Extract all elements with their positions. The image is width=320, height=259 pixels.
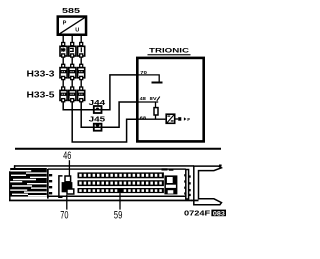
pin holes <box>79 174 162 192</box>
svg-text:J45: J45 <box>89 114 107 123</box>
pin 68 wire <box>139 118 166 120</box>
left end closure <box>10 165 15 200</box>
wire H33-5 pin1 to J44 to Trionic pin 70 <box>63 75 137 110</box>
end plate <box>186 170 189 200</box>
connector body outline top inner <box>48 168 186 169</box>
connector H33-3 row <box>60 64 85 79</box>
resistor (pull-up) <box>154 102 158 119</box>
nubs on top line <box>162 168 168 170</box>
connector body outline top outer <box>14 165 194 167</box>
highlighted pin 46 <box>65 176 71 182</box>
splice J44 <box>94 106 102 113</box>
wire crossing fork channel (body bottom line) <box>191 200 199 202</box>
svg-text:0724F: 0724F <box>184 211 210 218</box>
fork top beak flare <box>219 165 222 167</box>
svg-text:P: P <box>63 20 67 26</box>
pointer line 46 <box>68 160 70 176</box>
cable bundle hatching <box>10 168 47 197</box>
pointer line 59 <box>119 193 121 210</box>
svg-text:U: U <box>75 28 79 34</box>
pin bar row 3 <box>78 188 164 193</box>
svg-text:TRIONIC: TRIONIC <box>149 48 190 55</box>
divider teeth <box>49 174 52 194</box>
terminal row 1 (sensor connector pins) <box>60 43 85 58</box>
svg-text:70: 70 <box>60 210 68 222</box>
svg-text:48: 48 <box>140 96 147 102</box>
wire stubs sensor to terminal row 1 <box>63 36 81 44</box>
splice J45 <box>94 124 102 131</box>
pressure sensor 585 box (P/U transducer) <box>58 17 86 35</box>
wire 46 bus line <box>15 148 221 150</box>
pin bar row 2 <box>78 180 164 186</box>
wire stubs H33-3 to H33-5 <box>63 79 81 88</box>
svg-text:H33-5: H33-5 <box>27 90 56 99</box>
svg-text:59: 59 <box>114 210 123 222</box>
right end pin cluster <box>164 175 177 194</box>
pin below highlight <box>67 189 74 194</box>
pin bar row 1 <box>78 172 164 178</box>
pointer line 70 <box>66 195 68 210</box>
fork (harness clip) <box>194 166 222 205</box>
svg-text:H33-3: H33-3 <box>27 69 56 78</box>
svg-text:585: 585 <box>62 6 80 15</box>
highlighted pin 70 block <box>62 182 73 192</box>
wire H33-5 pin3 to J45 to Trionic pin 48 <box>81 101 137 127</box>
svg-text:68: 68 <box>140 115 147 121</box>
bracket left of pin field <box>59 176 63 197</box>
wire stubs row1 to H33-3 <box>63 57 81 66</box>
pin 70 wire and internal ground <box>139 75 160 82</box>
svg-text:083: 083 <box>213 210 226 217</box>
divider wall <box>47 169 49 199</box>
svg-text:8V: 8V <box>150 96 158 102</box>
underline <box>148 54 191 55</box>
svg-text:46: 46 <box>63 150 71 162</box>
output arrow to F <box>176 117 191 123</box>
connector body outline bottom inner <box>48 196 186 198</box>
pin 48 wire <box>139 101 159 103</box>
connector H33-5 row <box>60 87 85 102</box>
wire H33-5 pin2 to Trionic pin 68 <box>72 101 137 142</box>
connector body outline bottom outer <box>9 200 192 202</box>
Trionic ECU box <box>137 58 203 141</box>
end plate teeth <box>184 174 191 196</box>
inverted code 083 <box>211 210 226 217</box>
svg-text:F: F <box>187 117 190 123</box>
A/D converter <box>166 114 175 123</box>
